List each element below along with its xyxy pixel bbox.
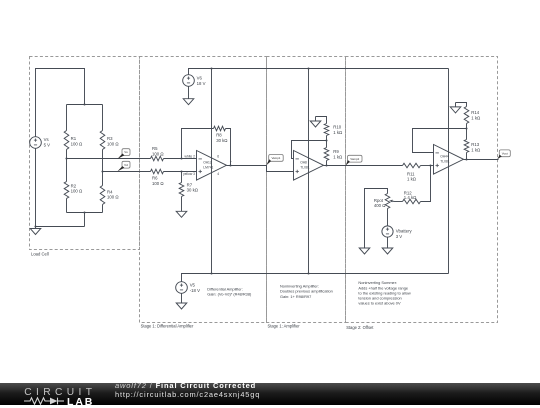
- svg-text:R5: R5: [152, 146, 158, 151]
- svg-text:3 V: 3 V: [396, 234, 403, 239]
- svg-text:100 Ω: 100 Ω: [71, 189, 83, 194]
- svg-text:1.4 kΩ: 1.4 kΩ: [404, 195, 417, 200]
- svg-text:R6: R6: [152, 176, 158, 181]
- svg-text:R14: R14: [471, 110, 479, 115]
- svg-text:R7: R7: [187, 182, 193, 187]
- svg-text:R1: R1: [71, 136, 77, 141]
- svg-text:100 Ω: 100 Ω: [107, 141, 119, 146]
- svg-text:100 Ω: 100 Ω: [152, 151, 164, 156]
- svg-text:Stage 2: Offset: Stage 2: Offset: [346, 325, 374, 330]
- svg-text:1 kΩ: 1 kΩ: [471, 147, 481, 152]
- svg-text:Gain: 1+ R98/R97: Gain: 1+ R98/R97: [280, 294, 311, 299]
- svg-text:Vd: Vd: [124, 163, 128, 167]
- svg-text:OA44: OA44: [440, 154, 449, 158]
- svg-text:R8: R8: [216, 133, 222, 138]
- svg-text:R10: R10: [333, 125, 341, 130]
- svg-text:OA8: OA8: [300, 160, 307, 164]
- svg-text:1 kΩ: 1 kΩ: [333, 155, 343, 160]
- svg-text:Vo: Vo: [124, 150, 128, 154]
- svg-text:TL081: TL081: [300, 166, 310, 170]
- svg-text:100 Ω: 100 Ω: [71, 141, 83, 146]
- svg-text:R4: R4: [107, 189, 113, 194]
- svg-text:V5: V5: [190, 283, 196, 288]
- svg-text:R2: R2: [71, 183, 77, 188]
- svg-text:values to exist above 0V: values to exist above 0V: [358, 301, 401, 306]
- svg-text:Stage 1: Amplifier: Stage 1: Amplifier: [268, 324, 301, 329]
- svg-text:6: 6: [217, 154, 219, 158]
- svg-text:-18 V: -18 V: [190, 288, 200, 293]
- svg-text:1 kΩ: 1 kΩ: [471, 116, 481, 121]
- svg-text:30 kΩ: 30 kΩ: [187, 188, 199, 193]
- svg-text:1 kΩ: 1 kΩ: [333, 130, 343, 135]
- svg-text:Load Cell: Load Cell: [31, 251, 49, 256]
- svg-text:1 kΩ: 1 kΩ: [407, 177, 417, 182]
- svg-text:100 Ω: 100 Ω: [107, 195, 119, 200]
- svg-text:V6: V6: [197, 76, 203, 81]
- svg-text:R3: R3: [107, 136, 113, 141]
- svg-text:4: 4: [217, 172, 219, 176]
- svg-text:7: 7: [230, 160, 232, 164]
- svg-text:TL081: TL081: [440, 160, 450, 164]
- svg-text:400 Ω: 400 Ω: [374, 203, 386, 208]
- svg-text:Vbattery: Vbattery: [396, 229, 413, 234]
- svg-text:Differential Amplifier:: Differential Amplifier:: [207, 286, 243, 291]
- svg-text:5 V: 5 V: [44, 143, 51, 148]
- svg-text:R13: R13: [471, 142, 479, 147]
- svg-text:30 kΩ: 30 kΩ: [216, 138, 228, 143]
- svg-text:Vamp2: Vamp2: [350, 157, 359, 161]
- svg-text:yellow 3: yellow 3: [183, 172, 195, 176]
- svg-text:Noninverting Amplifier:: Noninverting Amplifier:: [280, 283, 319, 288]
- svg-text:18 V: 18 V: [197, 81, 206, 86]
- svg-text:Vout: Vout: [502, 151, 508, 155]
- svg-text:Gain: (Vo-Vd)* (R48/R38): Gain: (Vo-Vd)* (R48/R38): [207, 292, 252, 297]
- svg-text:Vs: Vs: [44, 137, 49, 142]
- svg-text:R9: R9: [333, 149, 339, 154]
- svg-text:Rpot: Rpot: [374, 198, 384, 203]
- svg-text:R11: R11: [407, 171, 415, 176]
- svg-text:100 Ω: 100 Ω: [152, 181, 164, 186]
- svg-text:Vamp1: Vamp1: [271, 156, 280, 160]
- svg-text:white 2: white 2: [185, 154, 196, 158]
- svg-text:Doubles previous amplification: Doubles previous amplification: [280, 289, 333, 294]
- svg-text:Stage 1: Differential Amplifie: Stage 1: Differential Amplifier: [141, 324, 194, 329]
- svg-text:LM741: LM741: [203, 166, 213, 170]
- svg-text:OA12: OA12: [203, 160, 212, 164]
